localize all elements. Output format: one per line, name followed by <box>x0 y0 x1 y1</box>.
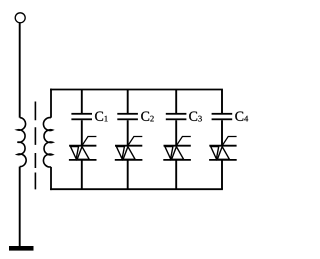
label C2 <box>141 112 154 122</box>
wire: capacitor C2 to triac 2 <box>127 120 129 146</box>
wire: triac 1 to bottom bus <box>81 160 83 189</box>
capacitor C1 <box>71 113 92 120</box>
wire: branch 3 upper <box>175 90 177 114</box>
wire: secondary winding to bottom bus <box>50 167 52 190</box>
capacitor C2 <box>117 113 138 120</box>
wire: capacitor C1 to triac 1 <box>81 120 83 146</box>
transformer primary winding <box>17 118 26 167</box>
triac 3 <box>163 137 191 160</box>
wire: secondary winding to top bus <box>50 89 52 118</box>
wire: terminal to primary winding <box>19 23 21 118</box>
label C1 <box>95 112 108 122</box>
wire: capacitor C4 to triac 4 <box>221 120 223 146</box>
label C3 <box>189 112 202 122</box>
capacitor C4 <box>212 113 233 120</box>
transformer core (dashed) <box>34 102 36 190</box>
capacitor C3 <box>166 113 187 120</box>
bottom bus wire <box>50 188 223 190</box>
ground <box>9 246 34 251</box>
label C4 <box>235 112 248 122</box>
wire: triac 3 to bottom bus <box>175 160 177 189</box>
wire: triac 2 to bottom bus <box>127 160 129 189</box>
transformer secondary winding <box>43 118 52 167</box>
terminal circle <box>15 13 25 23</box>
wire: branch 1 upper <box>81 90 83 114</box>
triac 1 <box>69 137 97 160</box>
wire: capacitor C3 to triac 3 <box>175 120 177 146</box>
wire: branch 4 upper (right edge) <box>221 90 223 114</box>
wire: primary winding to ground <box>19 167 21 247</box>
wire: branch 2 upper <box>127 90 129 114</box>
triac 4 <box>209 137 237 160</box>
triac 2 <box>115 137 143 160</box>
wire: triac 4 to bottom bus <box>221 160 223 189</box>
top bus wire <box>50 89 223 91</box>
